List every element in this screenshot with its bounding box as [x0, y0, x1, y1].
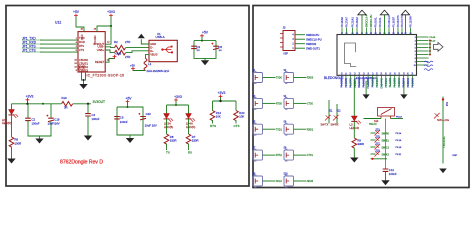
resistor R8 [164, 134, 169, 144]
wire R3 to D+ [126, 51, 149, 53]
net label JP1_RTS [22, 44, 43, 48]
wire J3 pin4 [295, 34, 305, 36]
wire +5V to VCC [76, 17, 84, 32]
IC U12 top pin names [80, 34, 97, 44]
svg-text:IC_FT230X-SSOP-16: IC_FT230X-SSOP-16 [87, 74, 125, 78]
capacitor C2 labels [32, 118, 40, 126]
svg-text:C9: C9 [120, 116, 124, 120]
svg-text:S12: S12 [337, 110, 342, 112]
svg-text:LED(R): LED(R) [2, 121, 11, 125]
inductor L1 (ferrite bead) [144, 59, 147, 71]
svg-text:RXD0: RXD0 [307, 78, 314, 80]
svg-text:P0.14: P0.14 [396, 133, 402, 135]
ground (C3 C8) [201, 60, 209, 65]
svg-text:+3V3: +3V3 [107, 10, 115, 14]
switch S15 designator [376, 136, 381, 138]
wire LED1 drop [11, 104, 13, 110]
wire LED LP4A to R7 [188, 119, 190, 134]
ground (module a) [363, 94, 370, 99]
wire RXD [40, 43, 78, 45]
wire C4 drop [87, 104, 89, 114]
svg-text:SWDIO-PU: SWDIO-PU [370, 15, 373, 28]
net label JP1_TXD [22, 36, 43, 40]
capacitor C4 [85, 114, 91, 116]
svg-text:100nF: 100nF [389, 172, 397, 176]
wire S8 net [294, 154, 307, 156]
left schematic sheet frame [6, 6, 249, 187]
svg-text:P1.04/A4: P1.04/A4 [376, 77, 379, 87]
wire X1 GND up [141, 39, 149, 44]
capacitor C3 [191, 45, 200, 52]
svg-text:CTS: CTS [79, 49, 84, 52]
no-connect squiggles (module right) [424, 61, 433, 70]
svg-text:330R: 330R [357, 142, 364, 146]
supply +5V (C9 C20) [126, 96, 133, 103]
svg-text:P1.09/LED: P1.09/LED [388, 15, 391, 27]
switch SW-K3 label [382, 155, 390, 157]
svg-text:GND-PAD: GND-PAD [380, 78, 383, 89]
svg-text:100R: 100R [15, 141, 22, 145]
capacitor C8 [211, 43, 222, 53]
svg-text:SWDCLK-PU: SWDCLK-PU [306, 37, 322, 41]
jumper S9 [253, 175, 263, 188]
wire +3V3 to 3V3OUT [105, 26, 111, 44]
LED LP3A labels [164, 122, 173, 129]
wire SW-C2 [371, 146, 376, 148]
capacitor C9 [114, 117, 120, 119]
wire 3V3 rail [12, 101, 62, 104]
svg-text:P0.07/CTS: P0.07/CTS [401, 15, 404, 27]
jumper S16 designator [284, 173, 289, 175]
LED L3 [351, 116, 361, 124]
junction C3 rail [201, 40, 203, 42]
wire SW-LOG net [442, 97, 444, 164]
wire module gnd b [403, 81, 405, 95]
svg-text:P1.00/SW: P1.00/SW [368, 77, 370, 88]
svg-text:L1: L1 [148, 62, 152, 66]
switch SW-C2 label [382, 148, 390, 150]
wire module right bus [429, 41, 431, 55]
svg-text:R19: R19 [62, 96, 68, 100]
svg-text:330R: 330R [192, 139, 199, 143]
LED LP1 [9, 110, 19, 118]
net label RX [188, 150, 192, 154]
ground (U12) [79, 84, 87, 89]
IC U12 left pin names [79, 36, 85, 52]
svg-text:DNP: DNP [453, 155, 458, 157]
svg-text:RTS1: RTS1 [276, 155, 283, 157]
net label TX [166, 150, 170, 154]
connector J3 name ISP [284, 52, 289, 56]
wire R8 to TX [166, 144, 168, 150]
capacitor C12 [383, 169, 389, 171]
switch SW-B1 label [382, 141, 390, 143]
svg-text:USB-A: USB-A [156, 35, 165, 39]
svg-text:VCC: VCC [80, 34, 84, 40]
net label DNP [453, 155, 458, 157]
jumper S6 designator [284, 122, 288, 124]
wire C9 C20 box [117, 102, 143, 135]
svg-text:RTS0: RTS0 [276, 104, 283, 106]
switch SW-TX SW-RX labels [321, 123, 339, 126]
supply arrow VDD (module top) [380, 10, 388, 34]
connector X1 pin names [150, 42, 158, 56]
resistor R9 labels [357, 138, 364, 146]
wire S4 net [294, 102, 307, 104]
ground (C2 C19) [35, 139, 43, 144]
junction SW-LOG top [442, 98, 444, 100]
svg-text:SWDIO2: SWDIO2 [306, 42, 317, 46]
resistor R3 [115, 50, 126, 55]
jumper S4 [284, 97, 294, 110]
wire C2 C19 bottom rail [28, 121, 51, 136]
ground (SW-LOG) [439, 169, 447, 174]
jumper S5 [253, 123, 263, 136]
connector J3 pin numbers [292, 35, 294, 51]
svg-text:CTS1: CTS1 [307, 155, 314, 157]
svg-text:P0.12/SW: P0.12/SW [409, 16, 412, 28]
switch S10 legs [381, 116, 391, 119]
resistor R19 [62, 102, 73, 107]
junction switch bus [371, 158, 373, 160]
resistor R20 labels [239, 111, 245, 119]
wire SW-RX net [336, 104, 338, 124]
capacitor C12 labels [389, 168, 397, 176]
svg-text:P1.10/BT: P1.10/BT [392, 17, 395, 28]
wire C12 gnd [385, 172, 387, 181]
svg-text:RX: RX [188, 150, 192, 154]
svg-text:P0.18: P0.18 [396, 147, 402, 149]
wire R14 to RTS [212, 120, 214, 123]
wire S2 net [294, 77, 307, 79]
supply +5V (U12 VCC) [73, 10, 80, 17]
svg-text:P1.13/B3: P1.13/B3 [395, 77, 397, 87]
antenna arrow (RF out) [434, 43, 444, 52]
svg-text:10K: 10K [239, 115, 244, 119]
wire module pin to LED L3 [353, 80, 355, 117]
wire SW-R0 [371, 132, 376, 134]
wire LED L3 to R9 [353, 122, 355, 139]
svg-text:P0.29/A9: P0.29/A9 [411, 77, 414, 87]
svg-text:C20: C20 [146, 112, 152, 116]
svg-text:RTS: RTS [210, 124, 216, 128]
svg-text:TXD1: TXD1 [276, 129, 283, 131]
jumper S2 designator [284, 70, 288, 72]
wire module gnd a [365, 81, 367, 95]
net label RXD1 [307, 129, 314, 131]
module bottom pin stubs [342, 75, 413, 87]
supply arrow VDD (module top) [358, 10, 366, 34]
net label TXD0 [276, 78, 283, 80]
wire J3 pin1 [295, 47, 305, 49]
svg-text:+5V: +5V [130, 64, 135, 68]
svg-text:27R: 27R [125, 40, 130, 44]
switch SW-LOG label [437, 118, 450, 122]
wire S6 net [294, 128, 307, 130]
svg-text:P0.21: P0.21 [396, 154, 402, 156]
switch S12 SW-RX [333, 115, 339, 121]
svg-text:P0.20/TX: P0.20/TX [355, 78, 357, 88]
wire L1 to +5V [133, 69, 146, 70]
inductor L1 label [148, 62, 152, 66]
IC U12 right pin names [93, 42, 104, 64]
wire USB+ to R3 [105, 50, 114, 53]
svg-text:SW-FC: SW-FC [369, 123, 377, 126]
svg-text:CTS0: CTS0 [307, 104, 314, 106]
wire S3 net [263, 102, 276, 104]
jumper S3 [253, 97, 263, 110]
svg-text:P0.11/B1: P0.11/B1 [373, 77, 375, 87]
IC U12 CBUS pin names [79, 58, 88, 73]
supply +3V3 (TX RX LEDs) [174, 95, 182, 102]
chassis ground arrow (X1 GND) [138, 34, 145, 38]
net label SCL0 [276, 181, 282, 183]
svg-text:R2: R2 [114, 40, 118, 44]
capacitor C19 [46, 115, 54, 122]
wire LED1 to R6 [11, 115, 13, 137]
module U1 BLEDONGLE body [337, 35, 417, 76]
net label SWDIO [306, 42, 317, 46]
switch S13 SW-R0 [375, 130, 381, 136]
wire S16 net [294, 180, 307, 182]
wire J3 pin3 [295, 38, 305, 40]
svg-text:P0.03/A3: P0.03/A3 [398, 77, 401, 87]
wire TXRX rail [167, 101, 189, 114]
net label FC [396, 117, 402, 119]
junction GND [83, 79, 85, 81]
svg-text:RESET: RESET [95, 60, 105, 64]
resistor R2 [115, 45, 126, 50]
net label RTS1 [276, 155, 283, 157]
wire S7 net [263, 154, 276, 156]
net label RTS0 [276, 104, 283, 106]
net label CTS0 [307, 104, 314, 106]
wire C3 C8 rail [194, 37, 216, 59]
wire SW-K3 [371, 153, 376, 155]
supply +5V (VBUS) [130, 64, 135, 71]
net label TXD-LOG [442, 136, 446, 148]
module top pin labels [341, 14, 413, 27]
IC U12 bottom pin names [78, 65, 86, 71]
op-amp U12 outline (FT230X IC body) [78, 32, 105, 72]
svg-text:CBUS0: CBUS0 [79, 58, 88, 62]
svg-text:P0.01/XL: P0.01/XL [379, 17, 382, 28]
svg-text:SDA0: SDA0 [307, 180, 314, 183]
switch S11 SW-TX [325, 115, 331, 121]
wire RTS [40, 47, 78, 49]
wire +3V3 to VCCIO [97, 17, 111, 32]
svg-text:1u: 1u [218, 48, 222, 52]
LED LP4A [186, 114, 196, 122]
net label P0.10 (module right) [430, 40, 436, 42]
svg-text:P0.21/A1: P0.21/A1 [351, 17, 354, 28]
connector J3 designator [283, 26, 286, 30]
jumper S8 [284, 149, 294, 162]
ground (module b) [400, 94, 407, 99]
module name label [324, 76, 344, 80]
wire R7 to RX [188, 144, 190, 150]
resistor R7 labels [192, 135, 199, 143]
svg-text:RTS: RTS [79, 45, 84, 48]
switch S12 designator [337, 110, 342, 112]
svg-text:P1.06/A6: P1.06/A6 [385, 77, 388, 87]
supply +3V3 (U12 VCCIO) [107, 10, 115, 17]
wire VBUS to L1 [146, 54, 150, 58]
net label SDA0 [307, 180, 314, 183]
switch S19 designator [376, 150, 381, 152]
module top pin stubs [342, 28, 411, 35]
wire S1 net [263, 77, 276, 79]
supply arrow VBUS (module top) [401, 10, 409, 34]
supply +3V3 (RTS CTS pullups) [218, 91, 226, 98]
svg-text:+5V: +5V [202, 31, 209, 35]
net label JS-LOG [445, 102, 447, 107]
net label RXD0 [307, 78, 314, 80]
resistor R9 [352, 138, 357, 148]
connector X1 body [149, 40, 177, 61]
switch S11 designator [329, 110, 334, 112]
svg-text:P1.11/B2: P1.11/B2 [390, 77, 392, 87]
svg-text:P0.23/A2: P0.23/A2 [356, 17, 359, 28]
svg-text:+3V3: +3V3 [218, 91, 226, 95]
junction rail a [26, 103, 28, 105]
wire SW-FC right [391, 118, 404, 120]
jumper S3 designator [253, 96, 257, 98]
net label P0.21 [396, 154, 402, 156]
wire CTS [40, 51, 78, 53]
IC U12 designator [55, 21, 61, 25]
module bottom pin labels [342, 77, 415, 88]
ground (C12) [381, 180, 389, 185]
svg-text:+5V: +5V [126, 96, 133, 100]
LED LP1 labels [2, 118, 11, 125]
resistor R6 labels [15, 138, 22, 146]
svg-text:CBUS1: CBUS1 [79, 61, 88, 65]
connector X1 designator [156, 32, 165, 39]
svg-text:SW-LOG: SW-LOG [437, 118, 450, 122]
jumper S7 designator [253, 148, 257, 150]
resistor R7 [186, 134, 191, 144]
svg-text:+5V: +5V [73, 10, 80, 14]
resistor R19 labels [62, 96, 68, 109]
module value label [356, 76, 377, 80]
svg-text:LED(R): LED(R) [186, 125, 195, 129]
jumper S9 designator [253, 173, 257, 175]
net label P0.09 (module right) [430, 37, 436, 39]
ground (R9) [350, 158, 358, 163]
inductor L1 value [147, 69, 170, 73]
svg-text:P0.02/A2: P0.02/A2 [407, 77, 410, 87]
jumper S7 [253, 149, 263, 162]
USB trident symbol [161, 46, 173, 54]
svg-text:3V3OUT: 3V3OUT [93, 100, 105, 104]
wire GND stem [83, 80, 85, 84]
svg-text:P0.26/A6: P0.26/A6 [341, 17, 344, 28]
resistor R8 labels [170, 135, 177, 143]
svg-text:SWDIO-PU: SWDIO-PU [306, 33, 319, 37]
LED L3 labels [350, 123, 359, 130]
jumper S6 [284, 123, 294, 136]
svg-text:P0.00/XL: P0.00/XL [374, 17, 377, 28]
svg-text:10uF 16V: 10uF 16V [145, 123, 157, 127]
junction rail b [42, 103, 44, 105]
wire R2 to D- [126, 47, 149, 49]
wire SW-TX net [328, 100, 330, 124]
svg-text:VBUS: VBUS [150, 52, 158, 56]
svg-text:27R: 27R [125, 55, 130, 59]
switch S15 SW-B1 [375, 137, 381, 143]
capacitor C4 labels [92, 113, 100, 121]
jumper S16 [284, 175, 294, 188]
net label JP1_CTS [22, 48, 43, 52]
jumper S1 designator [253, 70, 257, 72]
net label SWDCLK-PU [306, 37, 322, 41]
net label JP1_RXD [22, 40, 43, 44]
capacitor C9 labels [120, 116, 128, 125]
svg-text:10K: 10K [216, 115, 221, 119]
jumper S2 [284, 71, 294, 84]
svg-text:TX: TX [166, 150, 170, 154]
svg-text:1u: 1u [196, 48, 200, 52]
svg-text:CTS: CTS [234, 124, 240, 128]
junction C9 rail [127, 106, 129, 108]
junction +3V3 node [110, 25, 112, 27]
wire SW-B1 [371, 139, 376, 141]
wire C2 drop [28, 104, 51, 118]
junction RTSCTS [219, 100, 221, 102]
svg-text:SW-RX: SW-RX [331, 123, 339, 126]
svg-text:P0.17/FC: P0.17/FC [350, 78, 352, 88]
module bottom pin numbers [341, 71, 414, 74]
svg-text:P0.13/S1: P0.13/S1 [342, 77, 344, 87]
jumper S1 [253, 71, 263, 84]
wire S9 net [263, 180, 276, 182]
svg-text:GND: GND [150, 42, 156, 46]
svg-text:J3: J3 [283, 26, 286, 30]
resistor R2 labels [114, 40, 130, 44]
net label P0.16 [396, 140, 402, 142]
IC U12 pin numbers [74, 29, 110, 73]
svg-text:USB+: USB+ [97, 48, 105, 52]
net label 3V3OUT [93, 100, 105, 104]
switch S10 body [378, 108, 395, 117]
wire R19 to 3V3OUT [73, 103, 91, 105]
svg-text:SWD-OUT1: SWD-OUT1 [306, 46, 320, 50]
wire C3C8 gnd stem [204, 58, 206, 60]
connector J3 pin stubs left [280, 34, 283, 48]
IC U12 part label [87, 74, 125, 78]
svg-text:8762Dongle Rev D: 8762Dongle Rev D [60, 160, 103, 166]
svg-text:100nF: 100nF [120, 120, 128, 124]
switch SW-LOG [434, 113, 440, 119]
svg-text:+3V3: +3V3 [26, 95, 34, 99]
net label P0.18 [396, 147, 402, 149]
svg-text:D+: D+ [150, 49, 154, 53]
ground (C4) [84, 136, 92, 141]
wire SW-FC left [364, 118, 382, 120]
resistor R6 [9, 137, 14, 147]
wire R20 to CTS [235, 120, 237, 123]
resistor R3 value [125, 55, 130, 59]
svg-text:S14: S14 [445, 102, 447, 107]
svg-text:LED(B): LED(B) [164, 125, 173, 129]
svg-text:P0.05/RTS: P0.05/RTS [397, 15, 400, 27]
wire C4 gnd [87, 116, 89, 136]
right schematic sheet frame [253, 6, 469, 188]
resistor R14 labels [216, 111, 222, 119]
switch S17 SW-C2 [375, 144, 381, 150]
ground (R6) [7, 159, 15, 164]
